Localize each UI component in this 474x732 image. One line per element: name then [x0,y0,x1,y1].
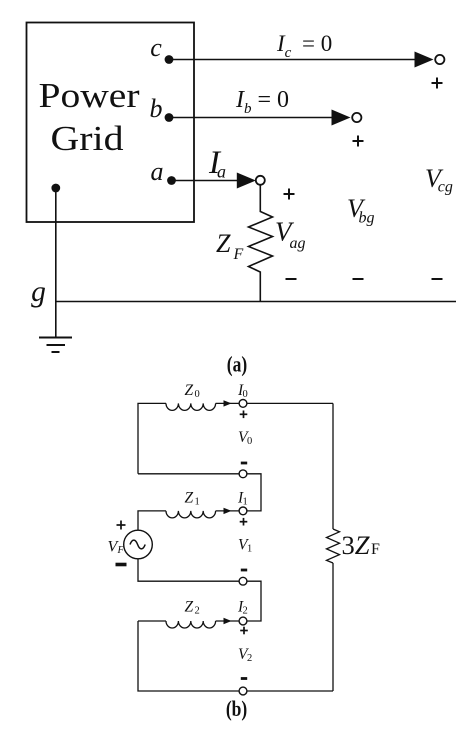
svg-text:2: 2 [243,606,248,617]
svg-text:F: F [233,246,244,263]
svg-text:2: 2 [195,606,200,617]
svg-text:Z: Z [185,382,194,399]
svg-text:2: 2 [247,653,252,664]
svg-text:1: 1 [195,496,200,507]
svg-text:Z: Z [216,229,231,258]
svg-text:c: c [150,33,162,62]
svg-text:Z: Z [185,489,194,506]
svg-text:Power: Power [39,76,140,115]
svg-text:cg: cg [438,179,453,196]
svg-text:Z: Z [185,599,194,616]
svg-text:(b): (b) [226,697,247,721]
svg-text:bg: bg [359,210,375,227]
svg-text:ag: ag [290,235,306,252]
svg-text:F: F [117,545,125,556]
svg-text:g: g [31,276,46,308]
svg-text:0: 0 [243,389,248,400]
svg-text:3Z: 3Z [342,530,370,560]
svg-text:Grid: Grid [51,119,125,158]
svg-text:F: F [371,541,380,558]
svg-text:0: 0 [247,436,252,447]
svg-text:1: 1 [247,543,252,554]
svg-text:0: 0 [195,389,200,400]
svg-text:(a): (a) [227,353,247,377]
svg-text:1: 1 [243,496,248,507]
svg-text:a: a [217,162,226,182]
svg-text:Ib = 0: Ib = 0 [235,87,289,117]
svg-text:a: a [151,157,164,186]
svg-text:b: b [150,94,163,123]
